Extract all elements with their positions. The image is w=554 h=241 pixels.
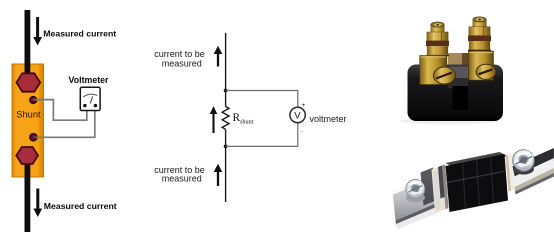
wire (voltmeter branch, top) bbox=[226, 91, 298, 108]
bolt B1 (upper hexagon on shunt) bbox=[17, 73, 41, 91]
bolt stack left (brass terminal) bbox=[420, 22, 456, 85]
node N2 (bottom junction) bbox=[224, 145, 228, 149]
shunt bar (tan, between bolts) bbox=[448, 53, 464, 67]
shunt housing (black block) bbox=[408, 65, 504, 122]
wire (T2 to voltmeter) bbox=[36, 110, 95, 137]
svg-text:Shunt: Shunt bbox=[16, 110, 41, 120]
left plate dark reflection bbox=[421, 168, 437, 206]
shadow under bar bbox=[394, 206, 440, 229]
wire (main vertical conductor, upper segment) bbox=[225, 33, 227, 107]
right terminal plate (dark top, bright edge) bbox=[513, 148, 554, 178]
arrow: measured current (bottom) bbox=[36, 189, 39, 210]
svg-text:measured: measured bbox=[162, 173, 202, 183]
wire (top thick conductor) bbox=[25, 10, 31, 77]
wire (main vertical conductor, lower segment) bbox=[225, 129, 227, 202]
arrow: current direction (bottom) bbox=[217, 171, 219, 187]
block slot (dark recess) bbox=[453, 86, 469, 110]
resistor Rshunt (zigzag) bbox=[222, 107, 229, 130]
left insulator spacer (cream) bbox=[432, 165, 449, 214]
label - polarity bbox=[301, 131, 303, 133]
svg-text:Voltmeter: Voltmeter bbox=[69, 75, 109, 85]
left bolt (chrome hex) bbox=[406, 180, 425, 203]
shadow under block bbox=[400, 118, 500, 125]
svg-text:voltmeter: voltmeter bbox=[310, 114, 347, 124]
right insulator spacer (cream) bbox=[506, 153, 519, 192]
svg-text:Measured current: Measured current bbox=[44, 201, 117, 211]
arrow: measured current (top) bbox=[36, 17, 39, 38]
voltmeter V1 (circle symbol) bbox=[290, 107, 305, 122]
node N1 (top junction) bbox=[224, 89, 228, 93]
svg-text:shunt: shunt bbox=[240, 119, 254, 126]
resistance element (black finned block) bbox=[446, 152, 508, 168]
arrow: current direction (top) bbox=[217, 53, 219, 67]
svg-text:V: V bbox=[294, 111, 301, 122]
terminal T1 (upper sense tap) bbox=[30, 97, 37, 104]
wire (voltmeter branch, bottom) bbox=[226, 123, 298, 147]
svg-text:measured: measured bbox=[162, 58, 202, 68]
arrow: current through Rshunt bbox=[212, 113, 214, 134]
shunt body (orange block) bbox=[12, 64, 44, 177]
left terminal plate (silver) bbox=[393, 175, 438, 221]
wire (T1 to voltmeter) bbox=[35, 100, 87, 121]
voltmeter M1 (panel meter box) bbox=[80, 87, 100, 110]
wire (bottom thick conductor) bbox=[25, 163, 31, 232]
bolt stack right (brass terminal) bbox=[468, 17, 496, 80]
bolt B2 (lower hexagon on shunt) bbox=[16, 147, 38, 164]
right bolt (chrome hex) bbox=[513, 150, 535, 175]
svg-text:Measured current: Measured current bbox=[43, 28, 116, 38]
svg-text:+: + bbox=[302, 102, 306, 109]
terminal T2 (lower sense tap) bbox=[30, 134, 37, 141]
